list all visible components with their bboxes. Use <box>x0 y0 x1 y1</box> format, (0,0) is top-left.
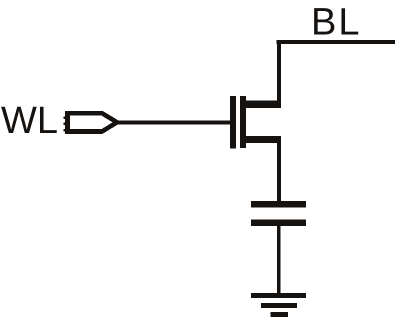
capacitor C1 top plate <box>251 201 306 208</box>
svg-text:WL: WL <box>1 100 58 142</box>
transistor M1 source stub <box>246 136 282 143</box>
input port symbol WL <box>68 113 118 131</box>
wire WL to gate <box>117 120 231 124</box>
wire drain vertical (BL to transistor drain) <box>277 40 281 104</box>
transistor M1 drain stub <box>246 101 282 109</box>
capacitor C1 bottom plate <box>251 220 306 227</box>
ground bar 1 <box>251 293 306 298</box>
ground bar 3 <box>271 312 289 317</box>
input port left-edge nubs <box>64 117 67 120</box>
wire BL horizontal line <box>277 40 395 44</box>
wire capacitor to ground <box>277 226 281 293</box>
transistor M1 channel bar <box>240 96 246 148</box>
ground bar 2 <box>261 303 297 308</box>
wire source to capacitor <box>277 143 281 201</box>
svg-text:BL: BL <box>311 2 361 44</box>
transistor M1 gate bar <box>230 96 236 149</box>
